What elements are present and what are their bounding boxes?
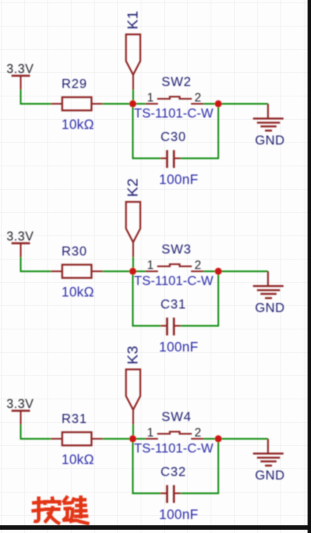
wire R30 to node A xyxy=(103,270,132,272)
switch SW2 pin 1 xyxy=(146,103,159,105)
svg-text:SW2: SW2 xyxy=(162,74,192,89)
switch SW2 pin 2 xyxy=(191,103,204,105)
wire C31 up to node B xyxy=(181,271,219,326)
power flag 3.3V xyxy=(7,62,35,90)
svg-text:2: 2 xyxy=(195,425,202,439)
connector K1 xyxy=(126,34,140,89)
wire node A to SW3 pin 1 xyxy=(133,270,146,272)
svg-text:10kΩ: 10kΩ xyxy=(62,284,95,299)
wire C30 up to node B xyxy=(181,104,219,159)
wire 3.3V to R29 xyxy=(21,90,51,104)
ground xyxy=(253,104,284,131)
power flag 3.3V xyxy=(7,229,35,257)
svg-text:SW4: SW4 xyxy=(162,409,192,424)
connector K3 xyxy=(126,369,140,424)
capacitor C30 xyxy=(161,150,181,168)
svg-text:GND: GND xyxy=(255,467,285,482)
switch SW3 bridge xyxy=(157,264,192,266)
ground xyxy=(253,439,284,466)
switch SW2 bridge xyxy=(157,97,192,99)
svg-text:100nF: 100nF xyxy=(159,507,198,522)
svg-text:K2: K2 xyxy=(125,178,142,197)
svg-text:3.3V: 3.3V xyxy=(7,229,35,243)
node A junction dot xyxy=(129,268,136,275)
wire node A down to C31 xyxy=(133,271,161,326)
svg-text:R29: R29 xyxy=(62,76,88,91)
sheet border bottom xyxy=(0,525,311,530)
sheet title 按键 (red) xyxy=(32,496,90,525)
resistor R29 xyxy=(51,97,103,110)
wire node A down to C30 xyxy=(133,104,161,159)
svg-text:3.3V: 3.3V xyxy=(7,397,35,411)
wire C32 up to node B xyxy=(181,439,219,494)
resistor R30 xyxy=(51,265,103,278)
connector K2 xyxy=(126,202,140,257)
switch SW3 pin 1 xyxy=(146,270,159,272)
resistor R31 xyxy=(51,432,103,445)
switch SW4 pin 1 xyxy=(146,438,159,440)
wire SW2 pin 2 to node B xyxy=(204,103,219,105)
svg-text:100nF: 100nF xyxy=(159,172,198,187)
node B junction dot xyxy=(215,435,222,442)
wire node B to GND xyxy=(218,270,268,272)
svg-text:K1: K1 xyxy=(125,10,142,29)
svg-text:2: 2 xyxy=(195,258,202,272)
svg-text:C31: C31 xyxy=(161,297,187,312)
wire SW3 pin 2 to node B xyxy=(204,270,219,272)
node A junction dot xyxy=(129,100,136,107)
svg-text:1: 1 xyxy=(147,425,154,439)
node B junction dot xyxy=(215,268,222,275)
svg-text:1: 1 xyxy=(147,90,154,104)
wire node A to SW4 pin 1 xyxy=(133,438,146,440)
svg-text:2: 2 xyxy=(195,90,202,104)
wire SW4 pin 2 to node B xyxy=(204,438,219,440)
svg-text:TS-1101-C-W: TS-1101-C-W xyxy=(134,440,214,455)
switch SW4 pin 2 xyxy=(191,438,204,440)
switch SW4 bridge xyxy=(157,432,192,434)
svg-text:C32: C32 xyxy=(161,464,187,479)
wire K1 pin to node A xyxy=(132,90,134,102)
capacitor C32 xyxy=(161,485,181,503)
svg-text:R30: R30 xyxy=(62,244,88,259)
sheet border right xyxy=(308,0,311,533)
node A junction dot xyxy=(129,435,136,442)
svg-text:TS-1101-C-W: TS-1101-C-W xyxy=(134,105,214,120)
wire R29 to node A xyxy=(103,103,132,105)
svg-text:TS-1101-C-W: TS-1101-C-W xyxy=(134,273,214,288)
switch SW3 pin 2 xyxy=(191,270,204,272)
wire node B to GND xyxy=(218,438,268,440)
svg-text:10kΩ: 10kΩ xyxy=(62,452,95,467)
ground xyxy=(253,271,284,298)
wire K2 pin to node A xyxy=(132,257,134,269)
node B junction dot xyxy=(215,100,222,107)
svg-text:10kΩ: 10kΩ xyxy=(62,117,95,132)
wire 3.3V to R31 xyxy=(21,425,51,439)
svg-text:SW3: SW3 xyxy=(162,242,192,257)
power flag 3.3V xyxy=(7,397,35,425)
wire node A to SW2 pin 1 xyxy=(133,103,146,105)
wire 3.3V to R30 xyxy=(21,257,51,271)
svg-text:100nF: 100nF xyxy=(159,340,198,355)
svg-text:1: 1 xyxy=(147,258,154,272)
wire K3 pin to node A xyxy=(132,425,134,437)
svg-text:C30: C30 xyxy=(161,129,187,144)
svg-text:3.3V: 3.3V xyxy=(7,62,35,76)
svg-text:R31: R31 xyxy=(62,411,88,426)
wire node A down to C32 xyxy=(133,439,161,494)
wire node B to GND xyxy=(218,103,268,105)
svg-text:K3: K3 xyxy=(125,345,142,364)
svg-text:GND: GND xyxy=(255,132,285,147)
svg-text:GND: GND xyxy=(255,300,285,315)
capacitor C31 xyxy=(161,318,181,336)
wire R31 to node A xyxy=(103,438,132,440)
